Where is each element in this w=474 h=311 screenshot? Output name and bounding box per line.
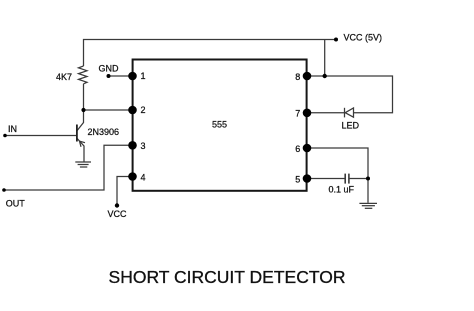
svg-text:2: 2 — [141, 105, 146, 115]
svg-text:555: 555 — [212, 120, 227, 130]
svg-text:GND: GND — [99, 64, 120, 74]
svg-text:IN: IN — [8, 124, 17, 134]
svg-text:1: 1 — [141, 71, 146, 81]
svg-text:6: 6 — [295, 144, 300, 154]
svg-text:2N3906: 2N3906 — [88, 127, 120, 137]
svg-text:SHORT CIRCUIT DETECTOR: SHORT CIRCUIT DETECTOR — [109, 267, 346, 287]
svg-text:7: 7 — [295, 109, 300, 119]
svg-text:8: 8 — [295, 72, 300, 82]
svg-text:VCC: VCC — [108, 209, 128, 219]
svg-text:4K7: 4K7 — [56, 72, 72, 82]
svg-text:3: 3 — [141, 141, 146, 151]
svg-text:VCC (5V): VCC (5V) — [344, 32, 383, 42]
svg-text:5: 5 — [295, 174, 300, 184]
svg-text:4: 4 — [141, 172, 146, 182]
svg-text:0.1 uF: 0.1 uF — [329, 185, 355, 195]
svg-text:LED: LED — [342, 121, 360, 131]
svg-text:OUT: OUT — [6, 199, 26, 209]
